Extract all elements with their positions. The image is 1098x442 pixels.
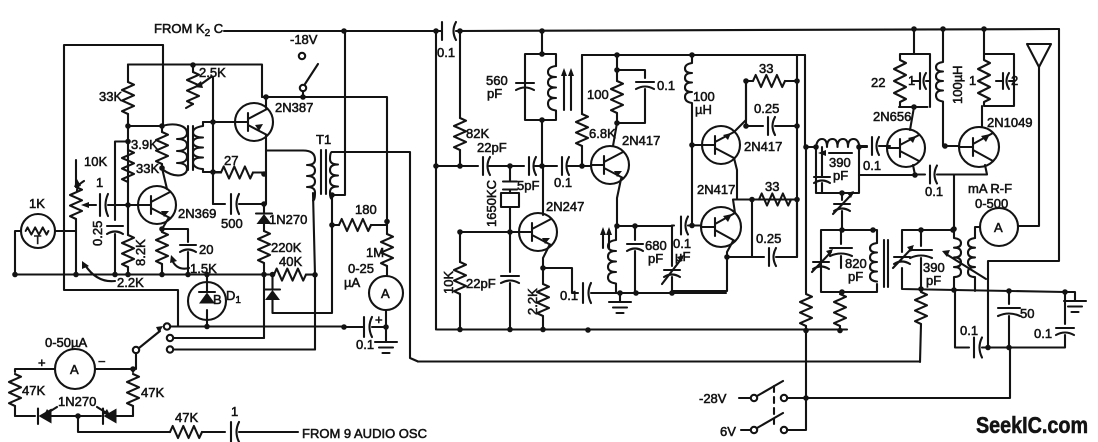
svg-text:1: 1 xyxy=(908,73,915,88)
resistor 82K xyxy=(454,118,466,150)
capacitor 390 pF (output) xyxy=(920,230,922,246)
svg-text:−: − xyxy=(98,354,106,369)
resistor 10K (osc) xyxy=(459,232,461,262)
resistor 47K (right) xyxy=(127,374,139,406)
resistor (x840 driver) xyxy=(834,294,846,326)
svg-text:0.1: 0.1 xyxy=(863,158,881,173)
svg-text:0.1: 0.1 xyxy=(437,45,455,60)
capacitor 0.1 (PA emitter) xyxy=(915,173,925,175)
capacitor variable (820 tank) xyxy=(813,262,829,269)
svg-text:1K: 1K xyxy=(29,196,45,211)
svg-text:2N247: 2N247 xyxy=(546,199,584,214)
tank 560pF frame xyxy=(525,31,556,166)
svg-text:6.8K: 6.8K xyxy=(589,126,616,141)
svg-text:0.1: 0.1 xyxy=(925,184,943,199)
wire 2N417-1 emitter xyxy=(617,179,621,226)
svg-text:0.1: 0.1 xyxy=(1034,326,1052,341)
diode 1N270 xyxy=(263,204,265,213)
svg-text:10K: 10K xyxy=(441,271,456,294)
wire osc row y166 xyxy=(436,165,591,167)
wire thermistor leads xyxy=(15,231,76,275)
svg-text:mA R-F: mA R-F xyxy=(968,181,1012,196)
wire 2N417-1 collector xyxy=(613,123,617,146)
capacitor 0.25 (bottom) xyxy=(727,200,764,258)
capacitor 0.1 (meter) xyxy=(364,317,372,337)
svg-text:0.1: 0.1 xyxy=(554,175,572,190)
svg-text:500: 500 xyxy=(221,216,243,231)
capacitor variable (below 390 frame) xyxy=(841,193,843,200)
transformer osc core xyxy=(188,126,193,170)
wire left frame xyxy=(64,45,178,327)
svg-text:82K: 82K xyxy=(466,126,489,141)
output transformer coils xyxy=(968,238,975,291)
wire T1 primary bottom rail xyxy=(313,193,315,350)
switch -18V xyxy=(299,53,305,59)
wire 2N417-3 collector down xyxy=(727,241,733,257)
svg-text:2.2K: 2.2K xyxy=(117,275,144,290)
wire 100uH rail to bases xyxy=(691,145,693,226)
wire meter left xyxy=(15,369,55,372)
switch rotary selector xyxy=(133,347,139,353)
capacitor 0.1 (osc) xyxy=(562,157,569,175)
svg-text:8.2K: 8.2K xyxy=(133,239,148,266)
wire 2N387 collector xyxy=(265,97,267,108)
diode 1N270 (left, pointing left) xyxy=(37,409,39,425)
wire 2N369 emitter xyxy=(162,219,168,229)
svg-text:A: A xyxy=(381,286,390,301)
svg-text:-28V: -28V xyxy=(699,391,727,406)
wire mid bus y329.5 xyxy=(437,328,847,330)
transistor 2N247 xyxy=(519,213,557,251)
capacitor 50 xyxy=(1008,291,1010,304)
diode (below 40K) xyxy=(271,275,273,290)
resistor 40K (in bus) xyxy=(274,269,306,281)
wire T1 secondary bottom to rail xyxy=(332,31,345,195)
wire -28V feed xyxy=(787,348,1010,399)
transformer osc: right winding xyxy=(193,122,203,172)
wire selector top contact xyxy=(171,325,345,327)
svg-text:0.1: 0.1 xyxy=(657,78,675,93)
resistor 180 xyxy=(332,224,339,226)
svg-text:µH: µH xyxy=(695,102,712,117)
antenna xyxy=(1027,44,1051,67)
svg-text:2N417: 2N417 xyxy=(744,139,782,154)
resistor 47K (left) xyxy=(9,374,21,406)
resistor (output bleeder) xyxy=(915,292,927,324)
svg-text:1: 1 xyxy=(231,404,238,419)
svg-text:SeekIC.com: SeekIC.com xyxy=(976,413,1088,439)
svg-text:33: 33 xyxy=(765,179,779,194)
ground (tank) xyxy=(619,293,621,302)
resistor 27 xyxy=(213,171,221,173)
wire y64 corner xyxy=(128,65,262,98)
inductor (820 tank) xyxy=(870,243,877,282)
svg-text:2.2K: 2.2K xyxy=(525,288,540,315)
resistor 100 xyxy=(616,55,618,81)
crystal 1650KC xyxy=(509,166,511,181)
svg-text:220K: 220K xyxy=(271,240,302,255)
svg-text:27: 27 xyxy=(224,153,238,168)
wire 2N247 collector xyxy=(542,166,544,215)
transistor 2N387 xyxy=(235,103,273,141)
transistor 2N1049 xyxy=(959,127,999,167)
wire 2N1049 emitter xyxy=(955,165,987,175)
capacitor 5pF xyxy=(529,157,536,175)
transistor 2N369 xyxy=(138,186,176,224)
network 1 / 2 (PA collector tank) xyxy=(984,29,1014,106)
resistor 47K (audio) xyxy=(170,426,202,438)
svg-text:22: 22 xyxy=(871,75,885,90)
svg-text:5pF: 5pF xyxy=(517,178,539,193)
wire 2N1049 base xyxy=(945,145,959,147)
svg-text:10K: 10K xyxy=(84,154,107,169)
wire selector bottom contact xyxy=(174,348,316,350)
svg-text:1N270: 1N270 xyxy=(269,212,307,227)
wire meter right xyxy=(95,369,133,372)
svg-text:0-50µA: 0-50µA xyxy=(45,335,88,350)
arrows (tuning) xyxy=(564,72,571,110)
wire right frame return xyxy=(988,29,1059,348)
wire 2N417-2 emitter down xyxy=(734,158,737,200)
resistor 2.5K (variable) xyxy=(192,65,194,72)
svg-text:40K: 40K xyxy=(279,254,302,269)
svg-text:100: 100 xyxy=(587,87,609,102)
wire tank base row y226 xyxy=(616,225,672,227)
wire tank bottom y293 xyxy=(616,292,726,294)
wire 2N417-2 base xyxy=(692,144,702,146)
wire y97 (2N387 collector rail) xyxy=(262,97,387,222)
capacitor 22pF (xtal) xyxy=(509,232,511,272)
svg-text:2N1049: 2N1049 xyxy=(987,115,1033,130)
svg-text:pF: pF xyxy=(926,273,941,288)
wire to audio line xyxy=(78,416,170,432)
svg-text:33K: 33K xyxy=(99,89,122,104)
wire bias bus y274.5 xyxy=(15,273,274,275)
frame 390 tank xyxy=(816,147,859,193)
svg-text:6V: 6V xyxy=(720,424,736,439)
resistor 33 (top) xyxy=(746,80,753,82)
transformer T1 primary winding xyxy=(303,151,315,201)
wire 2N369 collector xyxy=(162,168,167,189)
svg-text:0.25: 0.25 xyxy=(754,101,779,116)
svg-text:A: A xyxy=(994,220,1003,235)
wire rail x460 top xyxy=(459,31,461,118)
wire 2N417-2 collector to 33 row xyxy=(734,81,746,132)
network 22 / 1 (collector tank) xyxy=(899,29,930,107)
svg-text:pF: pF xyxy=(833,168,848,183)
transistor 2N417 (first) xyxy=(591,146,629,184)
capacitor 0.1 (output right) xyxy=(1064,292,1066,324)
capacitor 0.1 (100 bypass) xyxy=(617,70,645,78)
svg-text:1: 1 xyxy=(96,175,103,190)
wire bus2 y55 xyxy=(582,54,805,56)
wire top supply bus xyxy=(224,29,1059,31)
transformer T1 core xyxy=(321,150,326,194)
transformer T1 secondary winding xyxy=(330,152,338,199)
svg-text:47K: 47K xyxy=(175,410,198,425)
svg-text:2: 2 xyxy=(1011,73,1018,88)
resistor 33K (top left) xyxy=(127,65,129,83)
svg-text:33K: 33K xyxy=(136,161,159,176)
capacitor 0.1 uF (coupling to PA) xyxy=(681,217,688,235)
wire 2N247 emitter xyxy=(543,246,549,268)
resistor 220K xyxy=(258,231,270,263)
resistor 33K (second, on transformer rail) xyxy=(161,126,163,132)
wire selector mid contact xyxy=(174,337,265,339)
svg-text:47K: 47K xyxy=(22,383,45,398)
svg-text:0.25: 0.25 xyxy=(90,221,105,246)
svg-text:22pF: 22pF xyxy=(466,276,496,291)
svg-text:2N417: 2N417 xyxy=(697,182,735,197)
tank 820 pF frame xyxy=(821,230,877,292)
svg-text:33: 33 xyxy=(759,61,773,76)
svg-text:µA: µA xyxy=(344,275,360,290)
wire frame drop to transformer xyxy=(162,45,164,126)
svg-text:pF: pF xyxy=(487,86,502,101)
wire gang (dashed) xyxy=(773,386,775,424)
svg-text:1N270: 1N270 xyxy=(58,394,96,409)
svg-text:A: A xyxy=(70,362,79,377)
svg-text:+: + xyxy=(375,312,383,327)
svg-text:22pF: 22pF xyxy=(477,140,507,155)
wire rail x806 (supply feed) xyxy=(804,55,806,147)
wire emitter rail to output tank xyxy=(953,175,955,231)
capacitor 0.1 (2N247 emitter bypass) xyxy=(543,268,578,293)
capacitor 560 pF xyxy=(516,83,534,90)
transistor 2N656 xyxy=(887,129,925,167)
svg-text:100µH: 100µH xyxy=(950,65,965,104)
svg-text:T1: T1 xyxy=(316,132,331,147)
capacitor variable (680 tank) xyxy=(671,226,673,267)
resistor 3.9K xyxy=(122,150,134,182)
wire rail x436 xyxy=(435,31,437,330)
wire 2N417-3 base xyxy=(692,224,701,226)
resistor 6.8K xyxy=(581,55,583,114)
capacitor 22pF xyxy=(483,157,490,175)
wire 2N387 emitter to T1 primary xyxy=(266,149,303,151)
svg-text:20: 20 xyxy=(199,242,213,257)
diode 1N270 (right, pointing left) xyxy=(102,409,104,425)
inductor 100uH (PA) xyxy=(936,29,943,146)
svg-text:50: 50 xyxy=(1020,306,1034,321)
svg-text:pF: pF xyxy=(648,251,663,266)
wire T1 secondary top xyxy=(332,152,418,362)
capacitor 0.1 (PA coupling) xyxy=(859,145,867,147)
capacitor 1 (osc base) xyxy=(89,204,96,206)
wire 2N387 emitter rail xyxy=(265,135,267,204)
svg-text:2N369: 2N369 xyxy=(178,206,216,221)
svg-text:-18V: -18V xyxy=(290,32,318,47)
resistor 1.5K xyxy=(161,229,163,232)
wire rail x806 to switch xyxy=(787,331,806,431)
svg-text:pF: pF xyxy=(848,269,863,284)
svg-text:3.9K: 3.9K xyxy=(131,137,158,152)
wire long bus y361.5 xyxy=(418,360,920,362)
svg-text:2N387: 2N387 xyxy=(275,100,313,115)
svg-text:0.1: 0.1 xyxy=(960,323,978,338)
capacitor fixed (390 tank) xyxy=(821,147,823,176)
wire 2N1049 collector xyxy=(981,106,983,127)
svg-text:FROM 9 AUDIO OSC: FROM 9 AUDIO OSC xyxy=(302,426,427,441)
ground (meter) xyxy=(385,327,387,342)
wire 2.5K wiper rail x213 xyxy=(211,77,213,204)
tank 390 pF (output) frame xyxy=(902,230,1065,292)
wire rail x797 xyxy=(796,55,798,257)
transistor 2N417 (third) xyxy=(701,207,741,247)
capacitor 500 xyxy=(213,203,225,205)
svg-text:47K: 47K xyxy=(141,385,164,400)
svg-text:+: + xyxy=(38,355,46,370)
inductor 680 tank xyxy=(608,226,616,293)
svg-text:0.1: 0.1 xyxy=(560,288,578,303)
wire secondary rail x332 down xyxy=(273,195,332,313)
wire 2N247 base row xyxy=(460,231,519,233)
svg-text:1650KC: 1650KC xyxy=(484,180,499,227)
ground (output) xyxy=(1065,292,1075,301)
transformer osc: left winding xyxy=(162,124,187,175)
resistor 8.2K xyxy=(127,205,129,235)
capacitor variable (output tank left) xyxy=(894,257,910,264)
wire bottom bridge xyxy=(15,415,133,417)
svg-text:0.1: 0.1 xyxy=(356,337,374,352)
capacitor 820 pF xyxy=(840,230,842,244)
wire 2N656 collector xyxy=(910,107,914,130)
svg-text:1: 1 xyxy=(969,73,976,88)
wire transformer secondary top to 2N387 base xyxy=(203,121,235,123)
capacitor 0.25 xyxy=(107,226,123,234)
inductor (560 tank) xyxy=(548,66,556,111)
wire transformer secondary bottom to 27 node xyxy=(203,171,221,173)
capacitor 0.25 (top) xyxy=(746,81,763,126)
diode B D1 (zener block) xyxy=(188,282,226,320)
resistor 2.2K (osc emitter) xyxy=(542,268,544,284)
svg-text:2N656: 2N656 xyxy=(873,109,911,124)
svg-text:1M: 1M xyxy=(366,245,384,260)
resistor 10K pot xyxy=(75,160,77,187)
wire 33K to transformer top xyxy=(128,125,162,127)
inductor 100uH xyxy=(685,55,692,145)
svg-text:0-25: 0-25 xyxy=(348,261,374,276)
wire meter left lead xyxy=(975,227,980,238)
svg-text:T: T xyxy=(34,233,42,247)
svg-text:2N417: 2N417 xyxy=(622,133,660,148)
wire 2N417-3 emitter (top) xyxy=(733,200,797,214)
capacitor 0.1 (output bottom) xyxy=(955,290,969,348)
wire tap to 0.25 rail xyxy=(115,142,128,221)
svg-text:B: B xyxy=(213,292,222,307)
resistor 33 (bottom) xyxy=(759,194,791,206)
svg-text:0.25: 0.25 xyxy=(756,231,781,246)
capacitor 20 xyxy=(162,229,188,242)
resistor (x806 driver) xyxy=(800,294,812,326)
resistor 1M xyxy=(386,222,388,235)
capacitor 0.1 (top bus series) xyxy=(442,22,456,40)
capacitor 680 pF xyxy=(634,226,636,240)
capacitor 1 (audio) xyxy=(231,422,239,442)
wire 2N656 emitter xyxy=(913,165,915,175)
inductor 390 coil (driver tank) xyxy=(806,139,867,147)
transistor 2N417 (second) xyxy=(702,126,740,164)
svg-text:180: 180 xyxy=(355,202,377,217)
